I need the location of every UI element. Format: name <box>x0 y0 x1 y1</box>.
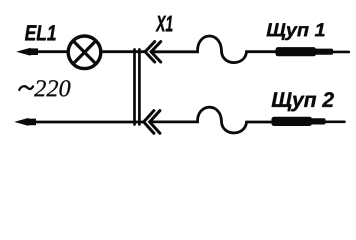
connector X1 vertical double line <box>133 50 136 125</box>
wire: bottom flexible lead with loop to probe 2 <box>150 107 272 133</box>
wire: bottom rail from left arrow to connector X1 <box>34 121 144 124</box>
label ~220 <box>34 80 70 96</box>
wire: top rail left arrow to lamp <box>34 50 68 53</box>
wire: top flexible lead with loop to probe 1 <box>151 36 276 63</box>
label EL1 <box>25 25 56 40</box>
wire: lamp to connector X1 (top) <box>101 50 145 53</box>
probe 2 body <box>272 117 313 126</box>
probe 1 tip <box>332 51 349 54</box>
connector X1 top chevron 2 <box>151 42 161 62</box>
label probe Щуп 1 <box>267 23 325 40</box>
probe 1 body <box>276 47 317 56</box>
label probe Щуп 2 <box>272 92 334 111</box>
connector X1 top chevron 1 <box>145 42 155 62</box>
probe 2 tip <box>324 121 345 124</box>
connector X1 bottom chevron 2 <box>150 111 160 134</box>
label ~ (AC sign) <box>19 86 33 90</box>
arrow: mains plug arrow bottom left <box>14 118 36 126</box>
lamp EL1 <box>68 36 101 69</box>
label X1 <box>156 16 173 32</box>
connector X1 bottom chevron 1 <box>144 111 154 134</box>
arrow: mains plug arrow top left <box>16 48 38 56</box>
